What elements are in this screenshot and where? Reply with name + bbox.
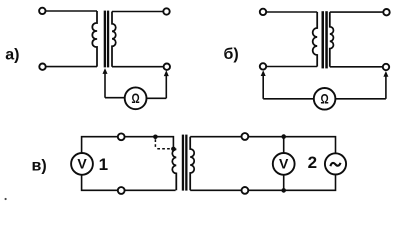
terminal a top-right [163,8,169,14]
svg-text:Ω: Ω [321,91,329,107]
probe arrow at terminal (circuit a) [164,70,169,76]
svg-text:V: V [279,156,289,172]
probe arrow at left terminal (circuit b) [261,70,266,99]
wire b top-left [266,11,317,13]
terminal b top-left [260,9,266,15]
transformer T1 secondary winding [112,12,116,67]
wire a top-right [112,11,163,13]
wire a meter left [105,97,125,99]
transformer T2 core [322,11,328,68]
transformer T1 core [104,11,110,68]
voltmeter PV1 (circuit v) [71,153,93,175]
svg-text:б): б) [224,46,239,63]
wire b meter right [335,98,386,100]
AC source G1 [325,153,346,174]
terminal b bottom-left [260,63,266,69]
wire v left-loop top [82,137,156,154]
junction dot voltmeter branch bottom [281,188,286,193]
wire b meter left [263,98,314,100]
speck artifact [5,198,7,200]
wire v right-loop top [190,137,335,154]
wire b bottom-left [266,66,317,68]
svg-text:2: 2 [308,153,317,172]
svg-text:V: V [77,156,87,172]
terminal a top-left [39,8,45,14]
transformer T2 primary winding [313,12,318,67]
dashed jumper wire [155,139,171,149]
wire v left-loop bottom [82,175,176,191]
svg-text:а): а) [5,47,19,64]
wire a top-left [46,10,97,12]
terminal v left-loop bottom [118,187,125,194]
ohmmeter PΩ2 (circuit b) [314,88,336,110]
terminal b top-right [383,9,389,15]
terminal a bottom-left [39,63,45,69]
wire v right-loop bottom [190,174,335,190]
terminal v right-loop bottom [242,187,249,194]
transformer T1 primary winding [92,11,97,67]
voltmeter PV2 (circuit v) [273,153,295,175]
terminal a bottom-right [164,63,170,69]
transformer T3 secondary winding [190,137,194,191]
transformer T3 primary winding [172,149,176,190]
wire a meter right [147,97,167,99]
terminal v right-loop top [242,133,249,140]
junction dot voltmeter branch top [281,134,286,139]
wire v jumper solid [155,137,173,149]
transformer T3 core [182,135,188,191]
junction dot on top wire [153,135,158,140]
wire voltmeter branch [283,137,285,191]
terminal b bottom-right [383,64,389,70]
wire a bottom-left [46,66,97,68]
wire a bottom-right [112,66,164,68]
svg-text:Ω: Ω [132,90,140,106]
terminal v left-loop top [118,133,125,140]
wire a right riser [165,76,167,99]
junction dot at winding start [171,147,176,152]
wire b right riser [385,76,387,98]
svg-text:в): в) [32,157,47,174]
svg-text:1: 1 [99,155,108,174]
wire b bottom-right [330,66,383,68]
label ~ of source [330,163,340,166]
probe arrow at right terminal (circuit b) [383,71,388,77]
transformer T2 secondary winding [330,12,334,67]
ohmmeter PΩ1 (circuit a) [125,87,147,109]
wire b top-right [330,11,384,13]
probe arrow at core bottom (circuit a) [103,68,108,98]
